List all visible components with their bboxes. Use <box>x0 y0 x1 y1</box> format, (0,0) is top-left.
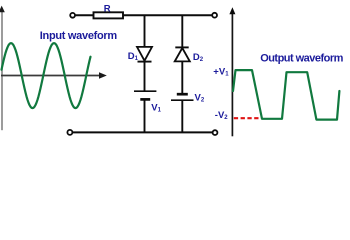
diode D1 <box>137 47 152 62</box>
output vertical axis <box>229 7 235 136</box>
dashed clip level -V2 <box>234 117 262 119</box>
terminal: top-left <box>70 13 75 18</box>
terminal: top-right <box>212 13 217 18</box>
resistor R <box>94 12 124 18</box>
output waveform <box>233 70 339 120</box>
wire: V1 to bottom rail <box>144 99 146 132</box>
terminal: bottom-right <box>213 130 218 135</box>
battery V1 <box>134 91 156 99</box>
wire: bottom rail <box>72 131 212 133</box>
terminal: bottom-left <box>67 130 72 135</box>
input vertical axis <box>0 6 5 131</box>
wire: V2 to bottom rail <box>181 100 183 132</box>
wire: D2 to V2 <box>181 61 183 94</box>
svg-text:Input waveform: Input waveform <box>40 30 118 42</box>
svg-text:Output waveform: Output waveform <box>260 53 343 65</box>
input horizontal axis <box>1 72 107 79</box>
svg-text:R: R <box>104 4 111 15</box>
input sine waveform <box>2 43 91 108</box>
wire: top rail <box>75 14 213 16</box>
battery V2 <box>171 94 194 100</box>
diode D2 <box>175 47 190 61</box>
wire: branch D2 top <box>181 15 183 47</box>
wire: branch D1 top <box>144 15 146 47</box>
wire: D1 to V1 <box>144 62 146 92</box>
